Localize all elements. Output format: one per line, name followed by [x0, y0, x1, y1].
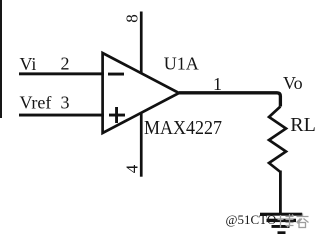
- frame edge line (left border): [0, 0, 2, 118]
- wire resistor to ground: [279, 171, 282, 215]
- op-amp U1A triangle: [103, 53, 179, 133]
- svg-text:Vi: Vi: [20, 54, 37, 74]
- svg-text:@51CTO: @51CTO: [226, 212, 277, 227]
- svg-text:2: 2: [61, 54, 70, 74]
- svg-text:4: 4: [122, 164, 141, 173]
- output wire pin 1 to Vo node and down to resistor: [179, 93, 280, 107]
- svg-text:8: 8: [123, 14, 142, 23]
- positive supply pin 8 wire: [140, 12, 143, 75]
- resistor RL zigzag: [269, 107, 286, 173]
- inverting input minus marker: [108, 73, 124, 76]
- svg-text:U1A: U1A: [164, 53, 199, 73]
- wire Vi to inverting input: [19, 72, 104, 75]
- ground symbol: [260, 213, 302, 234]
- watermark CJK glyph bo: [278, 214, 294, 228]
- svg-text:3: 3: [61, 93, 70, 113]
- svg-text:Vref: Vref: [20, 93, 52, 113]
- non-inverting input plus marker: [109, 107, 125, 123]
- negative supply pin 4 wire: [140, 113, 143, 177]
- svg-text:Vo: Vo: [283, 73, 303, 93]
- svg-text:RL: RL: [290, 114, 316, 136]
- wire Vref to non-inverting input: [19, 114, 104, 117]
- svg-text:MAX4227: MAX4227: [144, 117, 222, 139]
- watermark CJK glyph ke: [297, 214, 309, 228]
